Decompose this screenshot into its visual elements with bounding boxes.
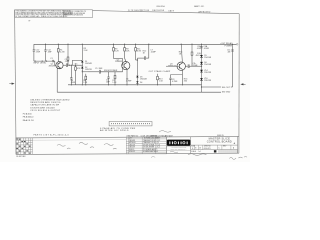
svg-text:C1: C1 xyxy=(50,58,52,60)
label C9B (left of rail) xyxy=(197,46,202,50)
label Q2 xyxy=(115,59,122,63)
transistor Q1 xyxy=(56,62,63,69)
label C8 xyxy=(193,63,199,67)
wire: right vertical rail xyxy=(232,44,234,87)
wire: Q2 base riser xyxy=(122,67,124,72)
svg-text:1N4148: 1N4148 xyxy=(204,64,211,66)
svg-text:D4: D4 xyxy=(140,82,143,84)
label R3 xyxy=(84,48,89,52)
handwriting page note xyxy=(230,157,248,160)
application notes text (boxed right cell) xyxy=(64,11,87,17)
quantity grid (left block) xyxy=(16,138,33,155)
diode D5 xyxy=(200,55,203,57)
diode Z2 xyxy=(200,78,203,80)
resistor R8 (Q2 base feed) xyxy=(113,44,123,65)
connector J1 pins xyxy=(111,122,150,125)
svg-text:1MF: 1MF xyxy=(106,82,111,84)
wire: +V top rail xyxy=(34,43,237,45)
label OUT RELAY POWER xyxy=(220,42,233,48)
company logo xyxy=(167,140,190,146)
wire: Q2 emitter xyxy=(126,69,128,85)
svg-text:Q3: Q3 xyxy=(157,142,159,144)
label R9 xyxy=(126,48,130,52)
svg-text:EQUIPMENT CONNECTED TO: EQUIPMENT CONNECTED TO xyxy=(64,11,87,13)
svg-text:2N5088: 2N5088 xyxy=(49,66,56,68)
svg-text:C: C xyxy=(219,148,221,150)
label R13 xyxy=(159,79,164,83)
wire: x68 rail stub xyxy=(67,44,69,57)
wire: clamp diode rail xyxy=(136,58,138,76)
svg-text:SIG GND: SIG GND xyxy=(222,92,231,94)
svg-text:47K: 47K xyxy=(77,68,81,70)
label Q1 xyxy=(49,64,56,68)
wire: Q1 emitter to ground bus xyxy=(57,68,60,92)
revision record header line (faint) xyxy=(16,139,126,142)
label R1 xyxy=(60,49,65,53)
node dots on emitter rail xyxy=(71,84,183,85)
label R8 xyxy=(115,48,120,52)
label C7 xyxy=(150,50,156,54)
node: C4 top xyxy=(71,65,72,66)
svg-text:REVISIONS: REVISIONS xyxy=(152,10,165,12)
svg-text:330: 330 xyxy=(184,81,187,83)
svg-text:DATE: DATE xyxy=(169,10,175,13)
label C9A xyxy=(203,45,209,50)
svg-text:REF: REF xyxy=(157,138,160,140)
node: D rail / signal junction xyxy=(82,65,83,72)
svg-text:SIG OUT: SIG OUT xyxy=(222,87,231,89)
label D5 xyxy=(204,55,211,59)
node dots input bus xyxy=(35,61,48,62)
capacitor C12 xyxy=(44,44,46,61)
svg-text:RA A OIL 2-D: RA A OIL 2-D xyxy=(23,119,35,122)
wire: clamp node to C5 xyxy=(82,71,88,73)
resistor R7 xyxy=(114,72,116,85)
svg-text:A: A xyxy=(233,147,235,150)
wire: rail stub x192 xyxy=(191,44,193,52)
svg-text:1.5K: 1.5K xyxy=(83,82,88,84)
svg-text:AN INTKE GO! DPM-D: AN INTKE GO! DPM-D xyxy=(100,129,129,132)
svg-text:1N4148: 1N4148 xyxy=(129,144,135,146)
svg-text:+OUT RELAY: +OUT RELAY xyxy=(220,42,233,45)
wire: SIG OUT line xyxy=(202,86,222,88)
number row dividers xyxy=(195,145,231,150)
svg-text:DIODE ZENER: DIODE ZENER xyxy=(143,147,155,149)
svg-text:C5 .1MF: C5 .1MF xyxy=(95,68,103,70)
label R15 xyxy=(179,51,183,55)
svg-text:LTR DESCRIPTION: LTR DESCRIPTION xyxy=(130,10,150,12)
handwritten check mark near notes box xyxy=(28,19,30,22)
svg-text:Q1-2: Q1-2 xyxy=(157,140,161,142)
table outer frame xyxy=(16,136,239,154)
label R12 xyxy=(143,50,147,54)
capacitor C4 (emitter bypass) xyxy=(70,65,72,85)
terminal: OUT RELAY POWER xyxy=(236,44,238,46)
resistor R1 (Q1 collector load) xyxy=(57,44,59,61)
capacitor C3 xyxy=(107,72,109,85)
border frame right xyxy=(238,14,240,154)
svg-text:DS 4017 REV: DS 4017 REV xyxy=(16,156,25,158)
resistor R3 (bias) xyxy=(67,57,69,65)
right margin fold arrow xyxy=(240,83,245,85)
wire: emitter network bus xyxy=(171,74,183,76)
label C4 xyxy=(71,80,76,84)
svg-text:2N5088: 2N5088 xyxy=(129,140,135,142)
title block cell rows xyxy=(191,145,238,150)
svg-text:SHEET 1 OF 1: SHEET 1 OF 1 xyxy=(194,6,204,8)
resistor R13 xyxy=(157,74,159,85)
handwriting below table middle xyxy=(188,154,207,156)
node dots on top rail xyxy=(45,44,233,45)
svg-text:.01M: .01M xyxy=(197,48,201,50)
svg-text:4.7MF: 4.7MF xyxy=(172,81,178,83)
label D3 xyxy=(140,76,147,80)
node: clamp rail top xyxy=(137,59,138,60)
resistor R11 xyxy=(135,44,138,60)
logo cell separators xyxy=(167,146,191,150)
parts list table xyxy=(126,137,166,154)
label Q3 xyxy=(168,63,176,67)
svg-text:1N4148: 1N4148 xyxy=(204,57,211,59)
label C12 xyxy=(47,50,52,54)
title text xyxy=(207,137,232,144)
svg-text:1: 1 xyxy=(157,149,158,151)
svg-text:6200-321: 6200-321 xyxy=(204,148,211,150)
quantity grid cell marks xyxy=(16,139,30,154)
scale row ruler ticks xyxy=(219,150,237,153)
handwriting mark (mid lower) xyxy=(159,131,171,133)
svg-text:INPUT LEVEL: INPUT LEVEL xyxy=(33,62,47,64)
svg-text:2.4K: 2.4K xyxy=(84,50,89,52)
label Z1 xyxy=(204,70,211,74)
svg-text:CAPACITORS ARE IN MF: CAPACITORS ARE IN MF xyxy=(30,104,60,107)
wire: emitter ground rail xyxy=(68,84,202,86)
svg-text:THIS DRAWING CONTAINS PROPRIET: THIS DRAWING CONTAINS PROPRIETARY INFORM… xyxy=(15,10,70,13)
svg-text:.5MF: .5MF xyxy=(71,82,76,84)
reference numbers (left margin) xyxy=(23,113,35,122)
capacitor C1 (input coupling) xyxy=(52,60,56,65)
label C6 xyxy=(126,78,132,82)
scale row xyxy=(191,150,201,153)
svg-text:PARTS LIST A-PL-4000-0-0: PARTS LIST A-PL-4000-0-0 xyxy=(34,133,70,136)
svg-text:DESCRIPTION: DESCRIPTION xyxy=(146,136,158,138)
svg-text:6.8K: 6.8K xyxy=(137,50,142,52)
label C2 xyxy=(65,59,70,63)
svg-text:PART NO: PART NO xyxy=(131,135,139,138)
label C9 xyxy=(172,79,178,83)
svg-text:DWG NO: DWG NO xyxy=(204,146,211,148)
label D2 xyxy=(85,67,92,71)
label R5 xyxy=(75,63,81,70)
node: C8 output junction xyxy=(201,66,202,67)
svg-text:4.7MF: 4.7MF xyxy=(126,80,132,82)
svg-text:DIODES ARE 1N4448: DIODES ARE 1N4448 xyxy=(30,106,55,109)
svg-text:6200-321-A: 6200-321-A xyxy=(157,5,166,8)
capacitor C9 xyxy=(169,75,171,85)
label C3 xyxy=(106,80,111,84)
wire: link to right rail xyxy=(231,86,233,88)
svg-text:2.2K: 2.2K xyxy=(115,50,120,52)
capacitor C11 xyxy=(231,50,233,51)
resistor R9 (Q2 collector load) xyxy=(124,44,126,61)
wire: Q1 collector xyxy=(58,61,60,64)
capacitor C9A xyxy=(200,47,202,48)
svg-text:.1MF: .1MF xyxy=(47,52,52,54)
svg-text:1.5K: 1.5K xyxy=(159,81,164,83)
handwriting marks in blank middle xyxy=(57,142,117,149)
transistor Q3 xyxy=(177,62,185,70)
svg-text:CR IS SIG B16 & OUTPUT: CR IS SIG B16 & OUTPUT xyxy=(30,110,61,112)
label C11 xyxy=(227,50,231,54)
diode D4 xyxy=(136,81,138,85)
svg-text:1N4148: 1N4148 xyxy=(140,78,147,80)
svg-text:POWER: POWER xyxy=(225,46,233,48)
resistor R12 / capacitor C7 L-branch xyxy=(137,44,148,60)
svg-text:Z1-2: Z1-2 xyxy=(157,147,160,149)
transistor Q2 xyxy=(122,62,130,70)
svg-text:1N5239: 1N5239 xyxy=(85,69,92,71)
label R6 xyxy=(83,80,88,84)
label C10 xyxy=(36,50,41,54)
border frame left xyxy=(15,10,17,155)
resistor R6 xyxy=(85,74,87,85)
svg-text:1N5239: 1N5239 xyxy=(204,72,211,74)
wire: Q3 base xyxy=(166,65,179,67)
label R11 xyxy=(137,48,142,52)
number row text xyxy=(191,146,235,150)
svg-text:.1MF: .1MF xyxy=(65,61,70,63)
svg-text:4000-0: 4000-0 xyxy=(129,149,134,151)
wire: output ladder rail xyxy=(201,44,203,92)
label D6 xyxy=(204,62,211,66)
connector J1 (dotted strip) xyxy=(109,122,152,126)
svg-text:1N4148: 1N4148 xyxy=(85,63,92,65)
svg-text:13: 13 xyxy=(199,148,201,150)
wire: Q3 collector xyxy=(181,44,182,63)
svg-text:CONTROL BOARD: CONTROL BOARD xyxy=(207,140,232,144)
capacitor C5 (coupling to Q2) xyxy=(88,70,123,74)
general notes box (top left) xyxy=(15,10,93,18)
wire: ground bus xyxy=(57,91,221,93)
svg-text:2N5088: 2N5088 xyxy=(115,61,122,63)
diode D6 xyxy=(200,62,203,64)
svg-text:.01MF: .01MF xyxy=(150,52,156,54)
handwriting small mark lower left of table xyxy=(151,156,155,159)
svg-text:SIZE: SIZE xyxy=(191,146,195,148)
svg-text:MPSU06: MPSU06 xyxy=(129,142,136,144)
diode D1 xyxy=(81,61,83,67)
diode D2 xyxy=(81,67,83,85)
svg-text:6200-32: 6200-32 xyxy=(129,151,135,153)
label R16 xyxy=(184,79,188,83)
node A (C2 / Q2 path junction) xyxy=(69,65,70,66)
svg-text:2.2M: 2.2M xyxy=(60,51,65,53)
faint sheet annotations (top) xyxy=(157,5,205,8)
svg-text:10K: 10K xyxy=(126,50,130,52)
svg-text:REV: REV xyxy=(223,146,227,148)
revision table header (above top border) xyxy=(130,10,211,14)
node: R5 top xyxy=(75,65,76,66)
svg-text:A: A xyxy=(234,142,236,145)
node: sig out tap xyxy=(201,86,202,87)
svg-text:B: B xyxy=(195,148,196,150)
svg-text:APPROVED: APPROVED xyxy=(199,10,211,13)
label D1 xyxy=(85,61,92,65)
diode Z1 xyxy=(200,70,203,72)
general notes text xyxy=(15,10,73,18)
label J1 caption xyxy=(100,127,136,132)
svg-text:.01MF: .01MF xyxy=(203,48,209,50)
logo address lines xyxy=(171,146,188,151)
revision table ticks xyxy=(129,9,141,11)
svg-text:FROM POWER: FROM POWER xyxy=(104,70,118,72)
border frame top xyxy=(93,11,240,14)
svg-text:D1-6: D1-6 xyxy=(157,144,161,146)
title block vertical dividers xyxy=(166,137,237,154)
diode D3 xyxy=(136,76,138,81)
svg-text:OUT STAGE CLAMP: OUT STAGE CLAMP xyxy=(149,70,171,73)
wire: input bus xyxy=(34,60,52,62)
svg-text:PD A 4011: PD A 4011 xyxy=(23,113,32,116)
resistor R15 xyxy=(191,52,193,66)
parts list table text xyxy=(126,135,166,153)
notes list (lower left) xyxy=(30,99,70,112)
svg-text:RESISTORS ARE 1/4W,5%: RESISTORS ARE 1/4W,5% xyxy=(30,101,61,104)
svg-text:22MF: 22MF xyxy=(193,65,199,67)
svg-text:QTY REQD: QTY REQD xyxy=(158,136,167,138)
label SCA (left of rail) xyxy=(196,52,202,57)
svg-text:.1MF: .1MF xyxy=(36,52,41,54)
svg-text:1=1: 1=1 xyxy=(199,151,202,153)
label R7 xyxy=(112,80,117,84)
svg-text:1N5239: 1N5239 xyxy=(129,147,135,149)
svg-text:.1M: .1M xyxy=(227,52,231,54)
capacitor C10 (input rail bypass) xyxy=(33,44,35,61)
svg-text:1N5239: 1N5239 xyxy=(204,80,211,82)
label next-assy header xyxy=(151,134,224,137)
capacitor C8 (output, polarized) xyxy=(185,64,201,68)
node: clamp tap xyxy=(82,71,83,72)
svg-text:1.5K: 1.5K xyxy=(112,82,117,84)
label Z2 xyxy=(204,78,211,82)
wire: Q3 emitter xyxy=(181,69,183,84)
svg-text:UNLESS OTHERWISE INDICATED:: UNLESS OTHERWISE INDICATED: xyxy=(30,99,70,102)
svg-text:PB A 4000-0: PB A 4000-0 xyxy=(23,116,34,119)
left margin fold arrow xyxy=(9,83,14,85)
scale row fill mark xyxy=(214,150,217,152)
svg-text:1K: 1K xyxy=(179,53,182,55)
svg-text:SCALE: SCALE xyxy=(191,150,196,153)
wire: bias network bridge xyxy=(73,60,83,65)
capacitor C2 (interstage) xyxy=(63,63,82,67)
diode rail stub from +V xyxy=(81,44,83,60)
svg-text:1K: 1K xyxy=(143,52,146,54)
resistor R5 (bias to ground) xyxy=(75,65,77,85)
handwriting under logo cell xyxy=(170,151,178,153)
